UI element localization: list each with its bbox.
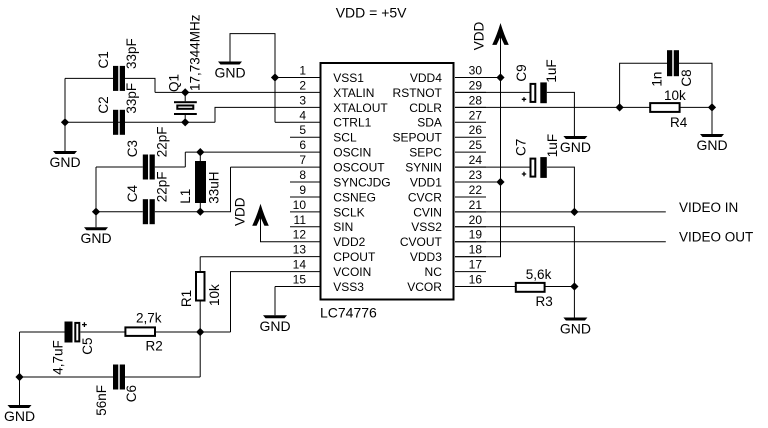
svg-text:4,7uF: 4,7uF [51, 340, 66, 375]
ground below R3 [560, 318, 591, 337]
svg-text:VCOIN: VCOIN [333, 265, 371, 279]
wire C1 right to corner [125, 78, 156, 92]
wire pin23 VDD1 link [455, 181, 501, 183]
pin 5 SCL stub and label [290, 123, 357, 144]
wire C7 to CVIN drop [547, 167, 574, 212]
wire GND rail C3C4 [95, 167, 97, 227]
svg-text:VDD = +5V: VDD = +5V [336, 5, 407, 21]
label C2 ref [96, 96, 111, 113]
wire pin24 SYNIN to C7 [455, 166, 531, 168]
pin 7 OSCOUT stub and label [290, 153, 385, 174]
capacitor C4 plates [143, 199, 155, 224]
capacitor C5 electrolytic [65, 322, 87, 343]
svg-text:L1: L1 [178, 189, 193, 204]
resistor R4 [650, 103, 679, 112]
node R4 left C8 tap [616, 103, 624, 111]
pin 15 VSS3 stub and label [290, 273, 364, 294]
svg-text:OSCOUT: OSCOUT [333, 160, 385, 174]
svg-text:9: 9 [299, 183, 306, 197]
svg-text:22: 22 [469, 183, 483, 197]
svg-text:VDD1: VDD1 [410, 175, 442, 189]
svg-text:SYNIN: SYNIN [405, 160, 442, 174]
svg-text:OSCIN: OSCIN [333, 146, 371, 160]
wire C3 right [155, 166, 186, 168]
svg-text:VIDEO OUT: VIDEO OUT [679, 230, 753, 245]
svg-text:SYNCJDG: SYNCJDG [333, 175, 390, 189]
node crystal top on XTALIN [181, 88, 189, 96]
svg-text:16: 16 [469, 273, 483, 287]
pin 18 VDD3 stub and label [410, 243, 486, 264]
svg-text:33uH: 33uH [206, 172, 221, 204]
label C1 ref [96, 51, 111, 68]
svg-text:2,7k: 2,7k [136, 311, 162, 326]
svg-text:C7: C7 [513, 139, 528, 156]
svg-text:SDA: SDA [417, 116, 442, 130]
node C6 left on rail [15, 373, 23, 381]
capacitor C7 electrolytic [522, 157, 547, 178]
wire pin15 VSS3 link [275, 287, 290, 316]
node L1 bottom on C4 row [196, 208, 204, 216]
resistor R3 [516, 283, 545, 292]
pin 12 VDD2 stub and label [290, 228, 366, 249]
svg-text:R2: R2 [146, 338, 163, 353]
svg-text:VDD: VDD [232, 197, 247, 226]
node R3 right on VSS2 drop [570, 282, 578, 290]
svg-text:20: 20 [469, 213, 483, 227]
svg-text:SCL: SCL [333, 131, 357, 145]
wire R3 GND drop [573, 287, 575, 318]
svg-text:CDLR: CDLR [409, 101, 442, 115]
svg-text:VSS1: VSS1 [333, 71, 364, 85]
wire pin19 CVOUT VIDEO OUT line [455, 241, 666, 243]
capacitor C1 plates [113, 66, 125, 91]
label R3 ref [536, 294, 553, 309]
pin 10 SCLK stub and label [290, 198, 365, 219]
label C6 ref [124, 385, 139, 402]
svg-text:Q1: Q1 [167, 74, 182, 92]
pin 19 CVOUT stub and label [400, 228, 486, 249]
svg-text:1n: 1n [649, 72, 664, 87]
svg-text:30: 30 [469, 64, 483, 78]
svg-text:1uF: 1uF [545, 134, 560, 157]
wire R4 right [680, 106, 712, 108]
svg-text:3: 3 [299, 93, 306, 107]
node L1 top on OSCIN [196, 148, 204, 156]
label net VIDEO IN [679, 200, 738, 215]
svg-text:28: 28 [469, 93, 483, 107]
label title VDD = +5V [336, 5, 407, 21]
svg-text:CSNEG: CSNEG [333, 190, 376, 204]
label C1 value 33pF [124, 38, 139, 69]
svg-text:C4: C4 [125, 185, 140, 203]
resistor R1 [196, 272, 205, 301]
label C2 value 33pF [124, 83, 139, 114]
svg-text:22pF: 22pF [155, 172, 170, 203]
svg-text:VIDEO IN: VIDEO IN [679, 200, 738, 215]
wire R1 bottom [199, 301, 201, 333]
pin 16 VCOR stub and label [407, 273, 486, 294]
svg-text:C2: C2 [96, 96, 111, 113]
label R1 value 10k [207, 284, 222, 306]
svg-text:C5: C5 [80, 338, 95, 355]
capacitor C9 electrolytic [522, 82, 547, 103]
label C4 value 22pF [155, 172, 170, 203]
wire C5 left [20, 331, 65, 333]
pin 6 OSCIN stub and label [290, 138, 371, 159]
wire pin28 CDLR to R4 [455, 106, 650, 108]
pin 23 VDD1 stub and label [410, 168, 486, 189]
wire C4 row L1 bottom [96, 211, 200, 213]
svg-text:R1: R1 [179, 290, 194, 307]
wire pin13 CPOUT link [200, 257, 290, 272]
node VDD1 on rail [496, 178, 504, 186]
inductor L1 [195, 152, 206, 212]
svg-text:33pF: 33pF [124, 38, 139, 69]
svg-text:18: 18 [469, 243, 483, 257]
wire C9 to GND drop [547, 92, 575, 136]
wire left rail bottom [19, 332, 21, 405]
svg-text:5: 5 [299, 123, 306, 137]
pin 9 CSNEG stub and label [290, 183, 376, 204]
pin 2 XTALIN stub and label [290, 78, 374, 99]
svg-text:SEPC: SEPC [409, 146, 442, 160]
svg-text:1uF: 1uF [544, 59, 559, 82]
node C4 left on GND rail [92, 208, 100, 216]
label C3 ref [125, 140, 140, 157]
svg-text:SEPOUT: SEPOUT [393, 131, 443, 145]
svg-text:6: 6 [299, 138, 306, 152]
svg-text:5,6k: 5,6k [526, 267, 552, 282]
node C2 left on GND rail [61, 118, 69, 126]
svg-text:NC: NC [425, 265, 443, 279]
label C7 ref [513, 139, 528, 156]
wire pin4 CTRL1 link [275, 121, 290, 123]
svg-text:CVCR: CVCR [408, 190, 442, 204]
svg-text:C8: C8 [679, 69, 694, 86]
svg-text:2: 2 [299, 78, 306, 92]
svg-text:33pF: 33pF [124, 83, 139, 114]
svg-text:VDD4: VDD4 [410, 71, 442, 85]
wire VDD rail [455, 33, 501, 257]
pin 26 SEPOUT stub and label [393, 123, 486, 144]
wire C5 to R2 [80, 331, 125, 333]
svg-text:GND: GND [259, 318, 290, 334]
svg-text:C3: C3 [125, 140, 140, 157]
svg-text:VDD3: VDD3 [410, 250, 442, 264]
ground below C3 C4 [80, 227, 111, 246]
wire corner to C3 [96, 152, 185, 167]
wire VDD2 pin12 link [261, 214, 291, 242]
label L1 value 33uH [206, 172, 221, 204]
node C7 drop on VIDEO IN [570, 208, 578, 216]
wire C1 left to GND rail [65, 78, 113, 151]
svg-text:11: 11 [294, 213, 307, 227]
wire pin6 OSCIN net [185, 151, 290, 153]
svg-text:C1: C1 [96, 51, 111, 68]
pin 28 CDLR stub and label [409, 93, 486, 114]
wire pin20 VSS2 to drop [455, 227, 574, 287]
svg-text:LC74776: LC74776 [320, 304, 377, 320]
pin 30 VDD4 stub and label [410, 64, 486, 85]
pin 14 VCOIN stub and label [290, 258, 371, 279]
svg-text:10k: 10k [664, 88, 686, 103]
ground bottom left [4, 405, 35, 424]
svg-text:24: 24 [469, 153, 483, 167]
svg-text:SIN: SIN [333, 220, 353, 234]
svg-text:CTRL1: CTRL1 [333, 116, 371, 130]
resistor R2 [125, 327, 155, 336]
label C6 value 56nF [94, 385, 109, 416]
svg-text:SCLK: SCLK [333, 205, 364, 219]
capacitor C6 plates [113, 365, 125, 390]
pin 8 SYNCJDG stub and label [290, 168, 391, 189]
label C9 ref [514, 64, 529, 81]
svg-text:1: 1 [299, 64, 306, 78]
label C7 value 1uF [545, 134, 560, 157]
svg-text:8: 8 [299, 168, 306, 182]
wire pin29 RSTNOT to C9 [455, 91, 531, 93]
label C5 value 4,7uF [51, 340, 66, 375]
capacitor C2 plates [113, 110, 125, 135]
pin 22 CVCR stub and label [408, 183, 486, 204]
ground below VSS3 [259, 315, 290, 334]
capacitor C8 plates [667, 50, 679, 76]
svg-text:12: 12 [293, 228, 307, 242]
svg-text:CVOUT: CVOUT [400, 235, 443, 249]
wire pin16 VCOR to R3 [455, 286, 516, 288]
label C4 ref [125, 185, 140, 203]
svg-text:VCOR: VCOR [407, 280, 442, 294]
svg-text:C9: C9 [514, 64, 529, 81]
ground below C9 [560, 136, 591, 155]
wire C6 row [20, 332, 201, 377]
svg-text:GND: GND [49, 154, 80, 170]
svg-text:7: 7 [299, 153, 306, 167]
pin 21 CVIN stub and label [413, 198, 486, 219]
node crystal bottom [181, 118, 189, 126]
pin 13 CPOUT stub and label [290, 243, 376, 264]
op-amp U1 LC74776 IC body [320, 63, 454, 320]
pin 11 SIN stub and label [290, 213, 353, 234]
wire L1 bottom to corner [200, 167, 230, 212]
svg-text:CPOUT: CPOUT [333, 250, 376, 264]
svg-text:27: 27 [469, 108, 483, 122]
label R4 value 10k [664, 88, 686, 103]
power VDD symbol near VDD2 [232, 197, 268, 226]
svg-text:CVIN: CVIN [413, 205, 442, 219]
wire pin21 CVIN VIDEO IN line [455, 211, 666, 213]
wire pin2 XTALIN net [155, 91, 290, 93]
label R3 value 5,6k [526, 267, 552, 282]
svg-text:22pF: 22pF [155, 127, 170, 158]
ground below R4 [696, 134, 727, 153]
svg-text:GND: GND [560, 320, 591, 336]
crystal Q1 [174, 92, 197, 122]
pin 25 SEPC stub and label [409, 138, 486, 159]
pin 27 SDA stub and label [417, 108, 486, 129]
label C3 value 22pF [155, 127, 170, 158]
pin 20 VSS2 stub and label [411, 213, 486, 234]
wire pin7 OSCOUT link [231, 166, 291, 168]
label C8 value 1n [649, 72, 664, 87]
svg-text:R4: R4 [670, 115, 688, 130]
label R4 ref [670, 115, 688, 130]
label C5 ref [80, 338, 95, 355]
label R1 ref [179, 290, 194, 307]
svg-text:R3: R3 [536, 294, 553, 309]
svg-text:10: 10 [293, 198, 307, 212]
pin 4 CTRL1 stub and label [290, 108, 372, 129]
label C9 value 1uF [544, 59, 559, 82]
ground left of C1 C2 [49, 151, 80, 170]
pin 17 NC stub and label [425, 258, 486, 279]
wire top GND bracket [230, 34, 275, 123]
wire R3 right [545, 286, 575, 288]
svg-text:GND: GND [214, 64, 245, 80]
node R4 right C8 GND [708, 103, 716, 111]
svg-text:19: 19 [469, 228, 483, 242]
pin 1 VSS1 stub and label [290, 64, 364, 85]
svg-text:VDD: VDD [472, 22, 487, 51]
svg-text:GND: GND [80, 230, 111, 246]
svg-text:RSTNOT: RSTNOT [393, 86, 443, 100]
node VDD4 on rail [496, 73, 504, 81]
svg-text:17,7344MHz: 17,7344MHz [187, 14, 202, 91]
svg-text:23: 23 [469, 168, 483, 182]
pin 3 XTALOUT stub and label [290, 93, 388, 114]
svg-text:21: 21 [469, 198, 483, 212]
svg-text:14: 14 [293, 258, 307, 272]
ground top near crystal [214, 62, 245, 81]
svg-text:XTALIN: XTALIN [333, 86, 374, 100]
node VSS1 tap on GND drop [271, 73, 279, 81]
wire corner to pin3 XTALOUT [215, 107, 290, 122]
svg-text:25: 25 [469, 138, 483, 152]
wire pin30 VDD4 link [455, 77, 501, 79]
node R1 bottom on R2 row [196, 328, 204, 336]
svg-text:15: 15 [293, 273, 307, 287]
wire C8 bracket [620, 63, 712, 107]
svg-text:C6: C6 [124, 385, 139, 402]
svg-text:4: 4 [299, 108, 306, 122]
svg-text:29: 29 [469, 78, 483, 92]
svg-text:17: 17 [469, 258, 483, 272]
wire R2 output row [155, 331, 231, 333]
svg-text:VSS2: VSS2 [411, 220, 442, 234]
svg-text:13: 13 [293, 243, 307, 257]
pin 29 RSTNOT stub and label [393, 78, 486, 99]
pin 24 SYNIN stub and label [405, 153, 486, 174]
capacitor C3 plates [143, 155, 155, 180]
svg-text:XTALOUT: XTALOUT [333, 101, 388, 115]
label Q1 ref [167, 74, 182, 92]
svg-text:VDD2: VDD2 [333, 235, 365, 249]
label net VIDEO OUT [679, 230, 753, 245]
wire R4 GND drop [711, 107, 713, 134]
wire pin1 VSS1 link [275, 77, 290, 79]
svg-text:VSS3: VSS3 [333, 280, 364, 294]
wire C2 row crystal bottom [65, 121, 215, 123]
svg-text:GND: GND [560, 139, 591, 155]
label C8 ref [679, 69, 694, 86]
label L1 ref [178, 189, 193, 204]
svg-text:56nF: 56nF [94, 385, 109, 416]
label R2 value 2,7k [136, 311, 162, 326]
svg-text:GND: GND [4, 408, 35, 424]
svg-text:26: 26 [469, 123, 483, 137]
power VDD symbol top right [472, 22, 509, 51]
wire pin14 VCOIN link [231, 272, 291, 332]
label Q1 value 17,7344MHz [187, 14, 202, 91]
svg-text:10k: 10k [207, 284, 222, 306]
svg-text:GND: GND [696, 137, 727, 153]
label R2 ref [146, 338, 163, 353]
